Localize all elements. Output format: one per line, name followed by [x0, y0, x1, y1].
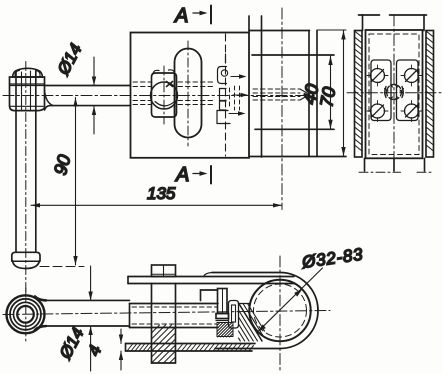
svg-text:A: A [175, 164, 189, 186]
nut head [152, 265, 176, 277]
housing top left merge [204, 273, 213, 277]
boss inner circle [151, 82, 178, 109]
rod bottom line [43, 325, 130, 327]
wedge hypotenuse [239, 303, 263, 341]
boss chevron [155, 101, 175, 106]
detent bracket D [217, 111, 230, 124]
yoke bottom verticals [365, 158, 425, 171]
center spring washer [385, 85, 404, 100]
lever foot cap [12, 252, 40, 260]
boss ear right [169, 70, 175, 73]
rod step [129, 304, 131, 328]
clamp post [218, 289, 228, 314]
rod top line [43, 299, 130, 301]
right bracket vertical x261.5 [261, 16, 263, 157]
hidden slot lines lower pair [133, 101, 213, 105]
flat strip left cap [125, 344, 127, 352]
screw top-right [401, 65, 422, 86]
screw shank bottom [130, 327, 219, 329]
dimension 90: bottom extension line [40, 266, 84, 268]
wedge hatch [239, 304, 265, 342]
right wall hatch [426, 31, 434, 151]
bore vertical centerline [279, 256, 281, 372]
lever foot dome [13, 261, 40, 269]
svg-text:135: 135 [147, 184, 176, 203]
knob knurl verticals [22, 71, 31, 110]
hidden slot lines upper pair [133, 82, 215, 87]
detent bracket C [220, 101, 227, 110]
dimension 90: line [75, 98, 77, 266]
detent arrow 1 [231, 76, 242, 78]
knob knurl bumps [15, 71, 40, 77]
lever left line [15, 72, 17, 252]
flat strip hatch left [127, 344, 151, 352]
dimension 40 line [330, 56, 332, 129]
dimension 135 line [31, 204, 282, 206]
right bracket vertical x249 upper extension [248, 16, 250, 33]
clamp post foot [216, 314, 229, 319]
knob band line [13, 76, 43, 78]
screw top-left [367, 65, 388, 86]
yoke top left vertical [362, 15, 364, 31]
knob body mid line [10, 84, 45, 106]
flat strip bottom [126, 350, 253, 352]
detent arrow 2 [233, 94, 244, 96]
nut block left side [151, 284, 153, 364]
eye ring 3 [14, 302, 38, 326]
screw thread hidden top [132, 306, 217, 308]
clamp bar bottom [128, 283, 294, 285]
lever foot chord [12, 260, 40, 262]
yoke top right vertical [423, 15, 425, 31]
right bracket bottom edge + 70 ext bottom [249, 156, 346, 158]
right bracket shelf line + 40 ext top [252, 54, 334, 56]
screw hole hidden lines [253, 89, 300, 100]
screw shank top [130, 303, 219, 305]
right bracket vertical x317 [316, 31, 318, 157]
housing top line [212, 272, 280, 274]
side center axis [393, 15, 395, 171]
right bracket top edge [249, 30, 310, 32]
flat strip hatch right [177, 344, 254, 352]
nut block bottom [152, 362, 176, 364]
bore circle [249, 280, 310, 341]
70 ext top [317, 29, 346, 31]
detent arrow 3 [229, 113, 242, 115]
eye ring outer [7, 295, 45, 333]
lever centerline [25, 62, 27, 293]
right bracket vertical x309 [308, 31, 310, 157]
dimension 4 line [120, 329, 122, 370]
left wall hatch [355, 31, 363, 151]
stadium slot [175, 49, 202, 138]
detent hook A [218, 67, 227, 84]
detent bracket B [220, 89, 227, 101]
dimension 70 line [343, 31, 345, 157]
plate dashed inner rect [369, 34, 419, 155]
bottom main centerline [3, 311, 330, 315]
svg-text:70: 70 [316, 85, 339, 108]
nut head inner line [163, 265, 165, 277]
screw bottom-right [401, 101, 422, 122]
clamp bar top [128, 276, 294, 278]
shaft bottom line with fillet [45, 106, 131, 110]
clamp post foot line2 [216, 320, 229, 322]
clamp bar left end [127, 277, 129, 284]
boss ear left [153, 70, 159, 73]
svg-text:A: A [174, 5, 188, 27]
stadium centerline [187, 41, 189, 146]
detent hook A bump [221, 70, 227, 76]
yoke top line [359, 14, 427, 16]
clamp jaw step [201, 290, 218, 301]
eye vertical centerline [25, 288, 27, 341]
lever right line [35, 72, 37, 252]
left wall [355, 31, 363, 158]
right wall [426, 31, 434, 158]
shaft centerline [3, 95, 309, 97]
housing bottom line [215, 348, 280, 350]
knob neck to shaft [45, 90, 54, 106]
eye tangent flare top [35, 297, 46, 301]
bore dashed circle [254, 284, 307, 337]
nut block right side [175, 284, 177, 364]
flat strip top [126, 343, 256, 345]
boss centerline vertical [163, 66, 165, 124]
nut block hatch [152, 325, 176, 363]
detent dashed verticals [230, 86, 240, 110]
cover plate left [371, 60, 391, 121]
screw hole cone point [300, 89, 310, 100]
handle knob dome [13, 68, 43, 77]
yoke bottom dashdot line [359, 171, 432, 173]
diameter dim diagonal [258, 268, 323, 332]
eye ring 2 [10, 299, 41, 330]
side horizontal centerline [347, 92, 441, 94]
screw bottom-left [367, 101, 388, 122]
boss x mark [167, 82, 173, 87]
nut head lower line [153, 273, 175, 275]
dimension phi14 top: line [93, 57, 95, 134]
plate outer [366, 30, 423, 158]
clamp post inner line [222, 289, 224, 314]
boss rounded square [152, 73, 177, 117]
housing oval arc [280, 273, 318, 349]
main body rectangle [131, 33, 250, 158]
slide bracket [229, 301, 239, 329]
dimension phi14 top: arrowheads [92, 77, 96, 116]
knob body [10, 77, 45, 111]
dimension phi14 bottom line [90, 266, 92, 371]
dimension 90: arrowheads [73, 98, 77, 266]
detent tick above [225, 54, 227, 63]
right bracket center axis [281, 8, 283, 210]
slide bracket slot [232, 305, 236, 322]
clamp dense hatch piece [217, 323, 233, 338]
eye ring inner [17, 306, 34, 323]
cover plate right [397, 60, 419, 121]
wedge top edge [239, 303, 250, 305]
long dashed vertical in body [225, 34, 227, 156]
screw thread hidden bottom [132, 323, 217, 325]
eye tangent flare bottom [35, 326, 46, 330]
right bracket lower shelf + 40 ext bottom [255, 128, 334, 130]
shaft top line [45, 85, 131, 87]
